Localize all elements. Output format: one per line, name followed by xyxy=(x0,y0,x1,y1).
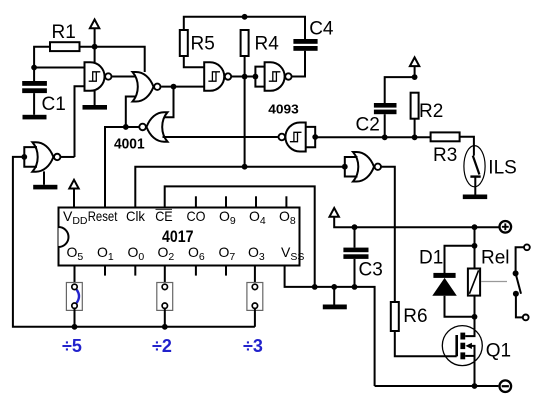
node C2 bottom xyxy=(382,134,388,140)
wire jumper 1 bottom to rail xyxy=(74,309,76,327)
wire NOR3 input bracket xyxy=(24,147,37,167)
pin stub O4 top xyxy=(255,196,257,207)
svg-text:R3: R3 xyxy=(433,145,457,166)
svg-text:C3: C3 xyxy=(359,260,383,281)
svg-text:R4: R4 xyxy=(255,34,280,55)
svg-text:÷5: ÷5 xyxy=(62,336,82,356)
nand gate schmitt NAND2 xyxy=(204,62,231,91)
wire VSS rail xyxy=(285,266,375,387)
svg-text:Q1: Q1 xyxy=(486,341,511,362)
node R1/C1/NAND1 xyxy=(31,65,37,71)
node NOR1 output junction xyxy=(171,84,177,90)
wire NOR4 output to R6 xyxy=(381,167,395,302)
jumper block 1 (div 5, closed) xyxy=(66,283,82,311)
node R2 top xyxy=(412,74,418,80)
pin stub O9 top xyxy=(225,196,227,207)
node C3 bottom junction xyxy=(352,284,358,290)
nor gate NOR3 (inputs tied, lower left) xyxy=(32,142,60,172)
node ground stub junction xyxy=(331,284,337,290)
nor gate NOR2 (mirrored) xyxy=(139,112,167,142)
wire coil bottom to drain node xyxy=(474,296,476,337)
wire NAND1 VSS pin to ground xyxy=(94,91,96,105)
transistor Q1 mosfet xyxy=(442,317,511,386)
pin stub O8 top xyxy=(285,196,287,207)
wire jumper 2 bottom to rail xyxy=(164,309,166,327)
pin stub CO top xyxy=(195,196,197,207)
capacitor C3 xyxy=(343,227,382,287)
node D1 bottom / drain xyxy=(472,314,478,320)
wire R6 bottom to Q1 gate xyxy=(395,331,457,356)
node jumper1 rail xyxy=(72,324,78,330)
ground below ILS xyxy=(463,195,487,200)
node C3 top xyxy=(352,224,358,230)
wire R2 bottom xyxy=(414,119,416,138)
svg-text:R2: R2 xyxy=(419,101,443,122)
wire R5 bottom to NAND2 input1 xyxy=(184,56,204,67)
power arrow +V (top left) xyxy=(90,20,99,47)
wire NOR3 input to jumper rail xyxy=(13,157,255,327)
nand gate schmitt NAND3 xyxy=(265,62,292,91)
wire R1 left to C1 node xyxy=(34,47,50,81)
wire C2 top branch xyxy=(385,77,415,103)
svg-text:R5: R5 xyxy=(191,34,215,55)
node relay branch xyxy=(472,224,478,230)
node D1 top xyxy=(472,243,478,249)
pin stub O7 bottom xyxy=(225,266,227,276)
ground below NAND1 xyxy=(83,105,108,110)
svg-text:R1: R1 xyxy=(52,22,76,43)
wire clk line horizontal xyxy=(135,167,344,208)
terminal minus xyxy=(500,380,512,392)
node NAND3 input tie xyxy=(253,74,259,80)
wire C4 bottom to NAND3 output xyxy=(292,51,305,77)
svg-text:R6: R6 xyxy=(403,306,427,327)
node NAND2 output R4 xyxy=(242,74,248,80)
node R2 bottom xyxy=(412,134,418,140)
wire NOR1 output down to NOR2 input1 xyxy=(162,87,174,118)
nand gate schmitt NAND4 (mirrored) xyxy=(279,123,306,152)
wire relay branch down to drain xyxy=(474,227,476,268)
op-amp U1A nand gate schmitt NAND1 xyxy=(85,62,112,91)
node NAND4 input tie xyxy=(312,134,318,140)
svg-text:Reset: Reset xyxy=(88,208,118,224)
wire NAND1 output to NOR1 input1 xyxy=(112,76,137,78)
diode D1 xyxy=(419,248,457,296)
capacitor C4 xyxy=(293,19,334,51)
svg-text:Clk: Clk xyxy=(126,208,146,224)
wire jumper 3 bottom to rail xyxy=(254,309,256,327)
node CE/VSS junction xyxy=(312,284,318,290)
node NOR3 input tie xyxy=(21,154,27,160)
resistor R4 xyxy=(241,30,280,56)
wire NAND4 output to NOR2 input2 xyxy=(163,136,278,138)
wire NAND4 input bracket xyxy=(306,127,316,147)
wire supply node to NOR1 top xyxy=(80,47,145,72)
node NOR4 input tie xyxy=(342,164,348,170)
wire CE to VSS rail xyxy=(165,186,315,287)
mechanical link relay to switch xyxy=(481,281,507,283)
svg-text:4001: 4001 xyxy=(114,136,145,152)
nor gate NOR1 xyxy=(133,72,161,102)
jumper block 2 (div 2, open) xyxy=(157,283,173,311)
wire R4 bottom xyxy=(244,56,246,76)
resistor R1 xyxy=(50,22,80,51)
svg-text:4093: 4093 xyxy=(268,102,299,117)
pin stub O0 bottom xyxy=(134,266,136,276)
pin O5 wire to jumper 1 xyxy=(74,266,76,285)
svg-text:CE: CE xyxy=(155,208,173,224)
resistor R6 xyxy=(391,302,428,331)
wire node to NAND1 input1 xyxy=(34,67,84,69)
ground below NOR3 xyxy=(33,185,57,190)
wire D1 top xyxy=(445,246,475,273)
wire NOR2 output to Reset xyxy=(105,127,139,208)
svg-text:÷2: ÷2 xyxy=(152,336,172,356)
svg-text:C2: C2 xyxy=(356,115,380,136)
wire bottom rail xyxy=(375,385,499,387)
power arrow R2/C2 xyxy=(410,57,419,77)
power arrow VDD 4017 xyxy=(69,180,78,208)
ground on VSS rail xyxy=(323,287,347,309)
wire oscillator output down to clk line xyxy=(244,77,246,167)
node jumper2 rail xyxy=(162,324,168,330)
wire NOR3 output up xyxy=(61,156,75,158)
svg-text:C4: C4 xyxy=(309,19,334,40)
resistor R5 xyxy=(180,30,215,56)
svg-text:÷3: ÷3 xyxy=(243,336,263,356)
terminal plus xyxy=(500,221,512,233)
wire NAND2 output xyxy=(232,76,256,78)
capacitor C1 xyxy=(22,81,66,115)
resistor R2 xyxy=(411,93,444,122)
pin O3 wire to jumper 3 xyxy=(254,266,256,285)
wire NOR4 input bracket xyxy=(345,157,358,177)
top rail R5 R4 C4 xyxy=(184,17,305,39)
svg-text:C1: C1 xyxy=(42,94,66,115)
wire R3 right to ILS xyxy=(460,137,474,156)
ground below C1 xyxy=(23,115,47,120)
wire NOR3 VSS pin xyxy=(43,171,45,184)
svg-text:CO: CO xyxy=(187,208,206,224)
node R4 top xyxy=(242,14,248,20)
node supply junction xyxy=(92,44,98,50)
svg-text:Rel: Rel xyxy=(481,248,510,269)
wire NAND1 VDD pin xyxy=(94,47,96,63)
relay switch contact xyxy=(513,244,530,320)
relay coil Rel xyxy=(468,248,510,296)
reed switch ILS xyxy=(464,146,517,195)
svg-text:D1: D1 xyxy=(419,248,443,269)
svg-text:ILS: ILS xyxy=(488,158,517,179)
wire NOR1 output xyxy=(161,86,204,88)
node NOR2 output junction xyxy=(123,124,129,130)
wire D1 bottom xyxy=(445,296,475,317)
ic 4017 body xyxy=(59,208,300,266)
jumper block 3 (div 3, open) xyxy=(247,283,263,311)
wire NOR1 input2 from NOR2 output node xyxy=(126,97,137,127)
nor gate NOR4 (inputs tied) xyxy=(353,152,381,182)
pin O2 wire to jumper 2 xyxy=(164,266,166,285)
pin stub O6 bottom xyxy=(195,266,197,276)
power arrow relay rail xyxy=(330,208,499,227)
pin stub O1 bottom xyxy=(104,266,106,276)
wire NAND4 input to R3 node xyxy=(315,136,430,138)
node clk junction xyxy=(242,164,248,170)
capacitor C2 xyxy=(356,103,397,137)
node source on bottom rail xyxy=(472,383,478,389)
wire NAND1 input2 from NOR3 output xyxy=(75,86,85,157)
wire NAND3 input bracket xyxy=(255,67,264,87)
resistor R3 xyxy=(431,132,460,166)
